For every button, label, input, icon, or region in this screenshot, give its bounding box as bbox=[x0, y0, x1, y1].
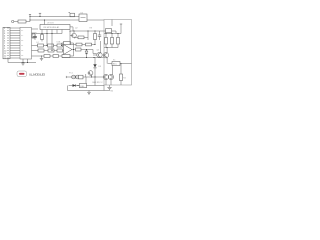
resistor R8 bbox=[44, 55, 50, 58]
right module box bbox=[104, 20, 132, 86]
tiny designator labels bbox=[36, 12, 127, 79]
net label small bbox=[93, 82, 104, 84]
svg-text:B01 R12 C: B01 R12 C bbox=[93, 82, 104, 84]
wire riser top-left bbox=[29, 14, 31, 21]
transistor Q4 bbox=[103, 74, 108, 79]
pin 2 bbox=[4, 30, 20, 32]
badge logo bbox=[17, 71, 27, 77]
bottom wire row 2 bbox=[69, 85, 105, 87]
box on N1 bbox=[106, 29, 117, 34]
U2 right pins bbox=[32, 29, 39, 37]
link B3 to B4 bbox=[85, 77, 87, 83]
U3 bottom pins bbox=[42, 30, 62, 51]
wire bbox=[44, 45, 48, 46]
pin 13 bbox=[4, 58, 20, 60]
input row 3 rail bbox=[32, 55, 63, 57]
regulator box B1 bbox=[79, 14, 87, 22]
cap C3 vertical bbox=[98, 31, 101, 40]
pin 1 bbox=[4, 28, 20, 30]
svg-text:U9 3V3: U9 3V3 bbox=[47, 23, 55, 25]
svg-text:R8: R8 bbox=[90, 28, 93, 30]
resistor R16 bbox=[105, 34, 108, 48]
connector J1 bbox=[3, 27, 10, 59]
junction line under U3 bbox=[36, 33, 62, 34]
ground G3 bbox=[107, 85, 111, 90]
pin 8 bbox=[4, 45, 20, 47]
transistor Q2 bbox=[70, 31, 76, 39]
IC U2 bbox=[20, 28, 32, 60]
resistor R6 bbox=[48, 49, 54, 52]
U3 top pin bbox=[44, 19, 45, 24]
wire stub U2 bottom bbox=[27, 59, 29, 63]
svg-text:I2: I2 bbox=[21, 34, 23, 37]
pin 5 bbox=[4, 38, 20, 40]
diode D1 bbox=[85, 50, 88, 58]
resistor R13 vertical bbox=[94, 31, 97, 45]
resistor R7 bbox=[57, 49, 64, 52]
feedback wire up bbox=[61, 43, 64, 46]
small component right of U2 bbox=[32, 34, 35, 39]
resistor R4 bbox=[57, 44, 64, 47]
net line N1 bbox=[70, 30, 106, 31]
bottom wire row 3 bbox=[68, 85, 114, 93]
resistor R5 bbox=[38, 49, 44, 52]
top bus wire B bbox=[30, 19, 79, 21]
svg-text:81C: 81C bbox=[113, 64, 117, 66]
resistor R17 bbox=[111, 34, 114, 48]
Q4 Q5 stubs bbox=[106, 80, 111, 85]
label Q2 bbox=[75, 28, 93, 30]
svg-text:U2A: U2A bbox=[57, 41, 62, 44]
optocoupler circles bbox=[72, 75, 80, 79]
resistor R20 vertical right bbox=[120, 63, 123, 85]
op-amp output wire bbox=[72, 49, 76, 50]
diode D2 bbox=[93, 58, 102, 78]
pin 12 bbox=[4, 55, 20, 57]
inner vertical from top bbox=[111, 20, 113, 27]
pin 10 bbox=[4, 50, 20, 52]
resistor R1 top-left bbox=[18, 20, 30, 23]
resistor R14 bbox=[76, 43, 82, 46]
output wire bbox=[81, 49, 97, 54]
pin 3 bbox=[4, 33, 20, 35]
wire bbox=[44, 50, 53, 51]
pin 11 bbox=[4, 53, 20, 55]
svg-text:UL_MODULE3: UL_MODULE3 bbox=[29, 72, 45, 76]
resistor R15 bbox=[86, 43, 92, 46]
svg-text:D9: D9 bbox=[99, 66, 102, 68]
power arrow right bbox=[120, 24, 122, 34]
box B2 bbox=[112, 62, 132, 66]
ground under U2 bbox=[21, 59, 25, 65]
ground G2 bbox=[40, 56, 43, 61]
resistor R18 bbox=[117, 34, 120, 48]
wire B2 to Q5 bbox=[112, 66, 114, 75]
ground G4 bbox=[87, 91, 91, 95]
wire B1 output bbox=[87, 19, 104, 21]
box B4 bbox=[80, 83, 87, 87]
feedback resistor R10 bbox=[62, 50, 74, 58]
input row 1 bbox=[32, 45, 38, 47]
box B3 bbox=[79, 75, 84, 79]
cluster rails bbox=[104, 33, 121, 34]
wire bbox=[54, 45, 58, 47]
diode D3 bbox=[73, 84, 79, 87]
wire to box bbox=[108, 63, 112, 65]
top-left input circle bbox=[12, 20, 19, 22]
cluster bottom rail bbox=[104, 47, 118, 48]
op-amp U4 bbox=[64, 45, 73, 55]
wide box U3 bbox=[40, 25, 70, 30]
wire bbox=[54, 50, 57, 52]
resistor R3 bbox=[48, 44, 54, 47]
transistor Q5 bbox=[108, 74, 113, 79]
svg-text:Q2: Q2 bbox=[75, 28, 79, 30]
input row 2 bbox=[32, 50, 39, 52]
transistor Q3 bbox=[103, 48, 108, 64]
tick on row 1 bbox=[85, 74, 87, 77]
resistor R2b vertical bbox=[41, 35, 44, 42]
net label text bbox=[29, 72, 45, 76]
wire from U3 to N1 bbox=[70, 27, 73, 31]
lower row wire bbox=[69, 30, 95, 45]
output resistor R11 bbox=[76, 48, 82, 51]
svg-text:Q3: Q3 bbox=[97, 49, 101, 51]
pin 9 bbox=[4, 48, 20, 50]
svg-text:R2: R2 bbox=[123, 77, 126, 79]
VCC flag bbox=[39, 13, 41, 17]
transistor Q1 bbox=[93, 41, 102, 58]
svg-text:N2: N2 bbox=[111, 91, 114, 93]
pin 7 bbox=[4, 43, 20, 45]
pin 6 bbox=[4, 40, 20, 42]
ground rail bottom-left bbox=[8, 59, 36, 63]
svg-text:PC1: PC1 bbox=[69, 73, 74, 75]
polarized cap C1 on bus bbox=[69, 13, 75, 17]
vertical drop bbox=[94, 77, 96, 86]
top bus wire A bbox=[30, 16, 79, 18]
pin 4 bbox=[4, 35, 20, 37]
feedback resistor R9 bbox=[64, 42, 74, 50]
mid rail bbox=[62, 57, 104, 58]
svg-text:CN MODULE A1: CN MODULE A1 bbox=[43, 26, 60, 29]
bottom wire row 1 bbox=[66, 76, 104, 78]
resistor R12 bbox=[75, 31, 88, 40]
cap C2 left of U3 bbox=[32, 34, 37, 41]
transistor Q6 bbox=[88, 71, 93, 77]
resistor R8b bbox=[53, 55, 59, 58]
resistor R2 bbox=[38, 44, 44, 47]
